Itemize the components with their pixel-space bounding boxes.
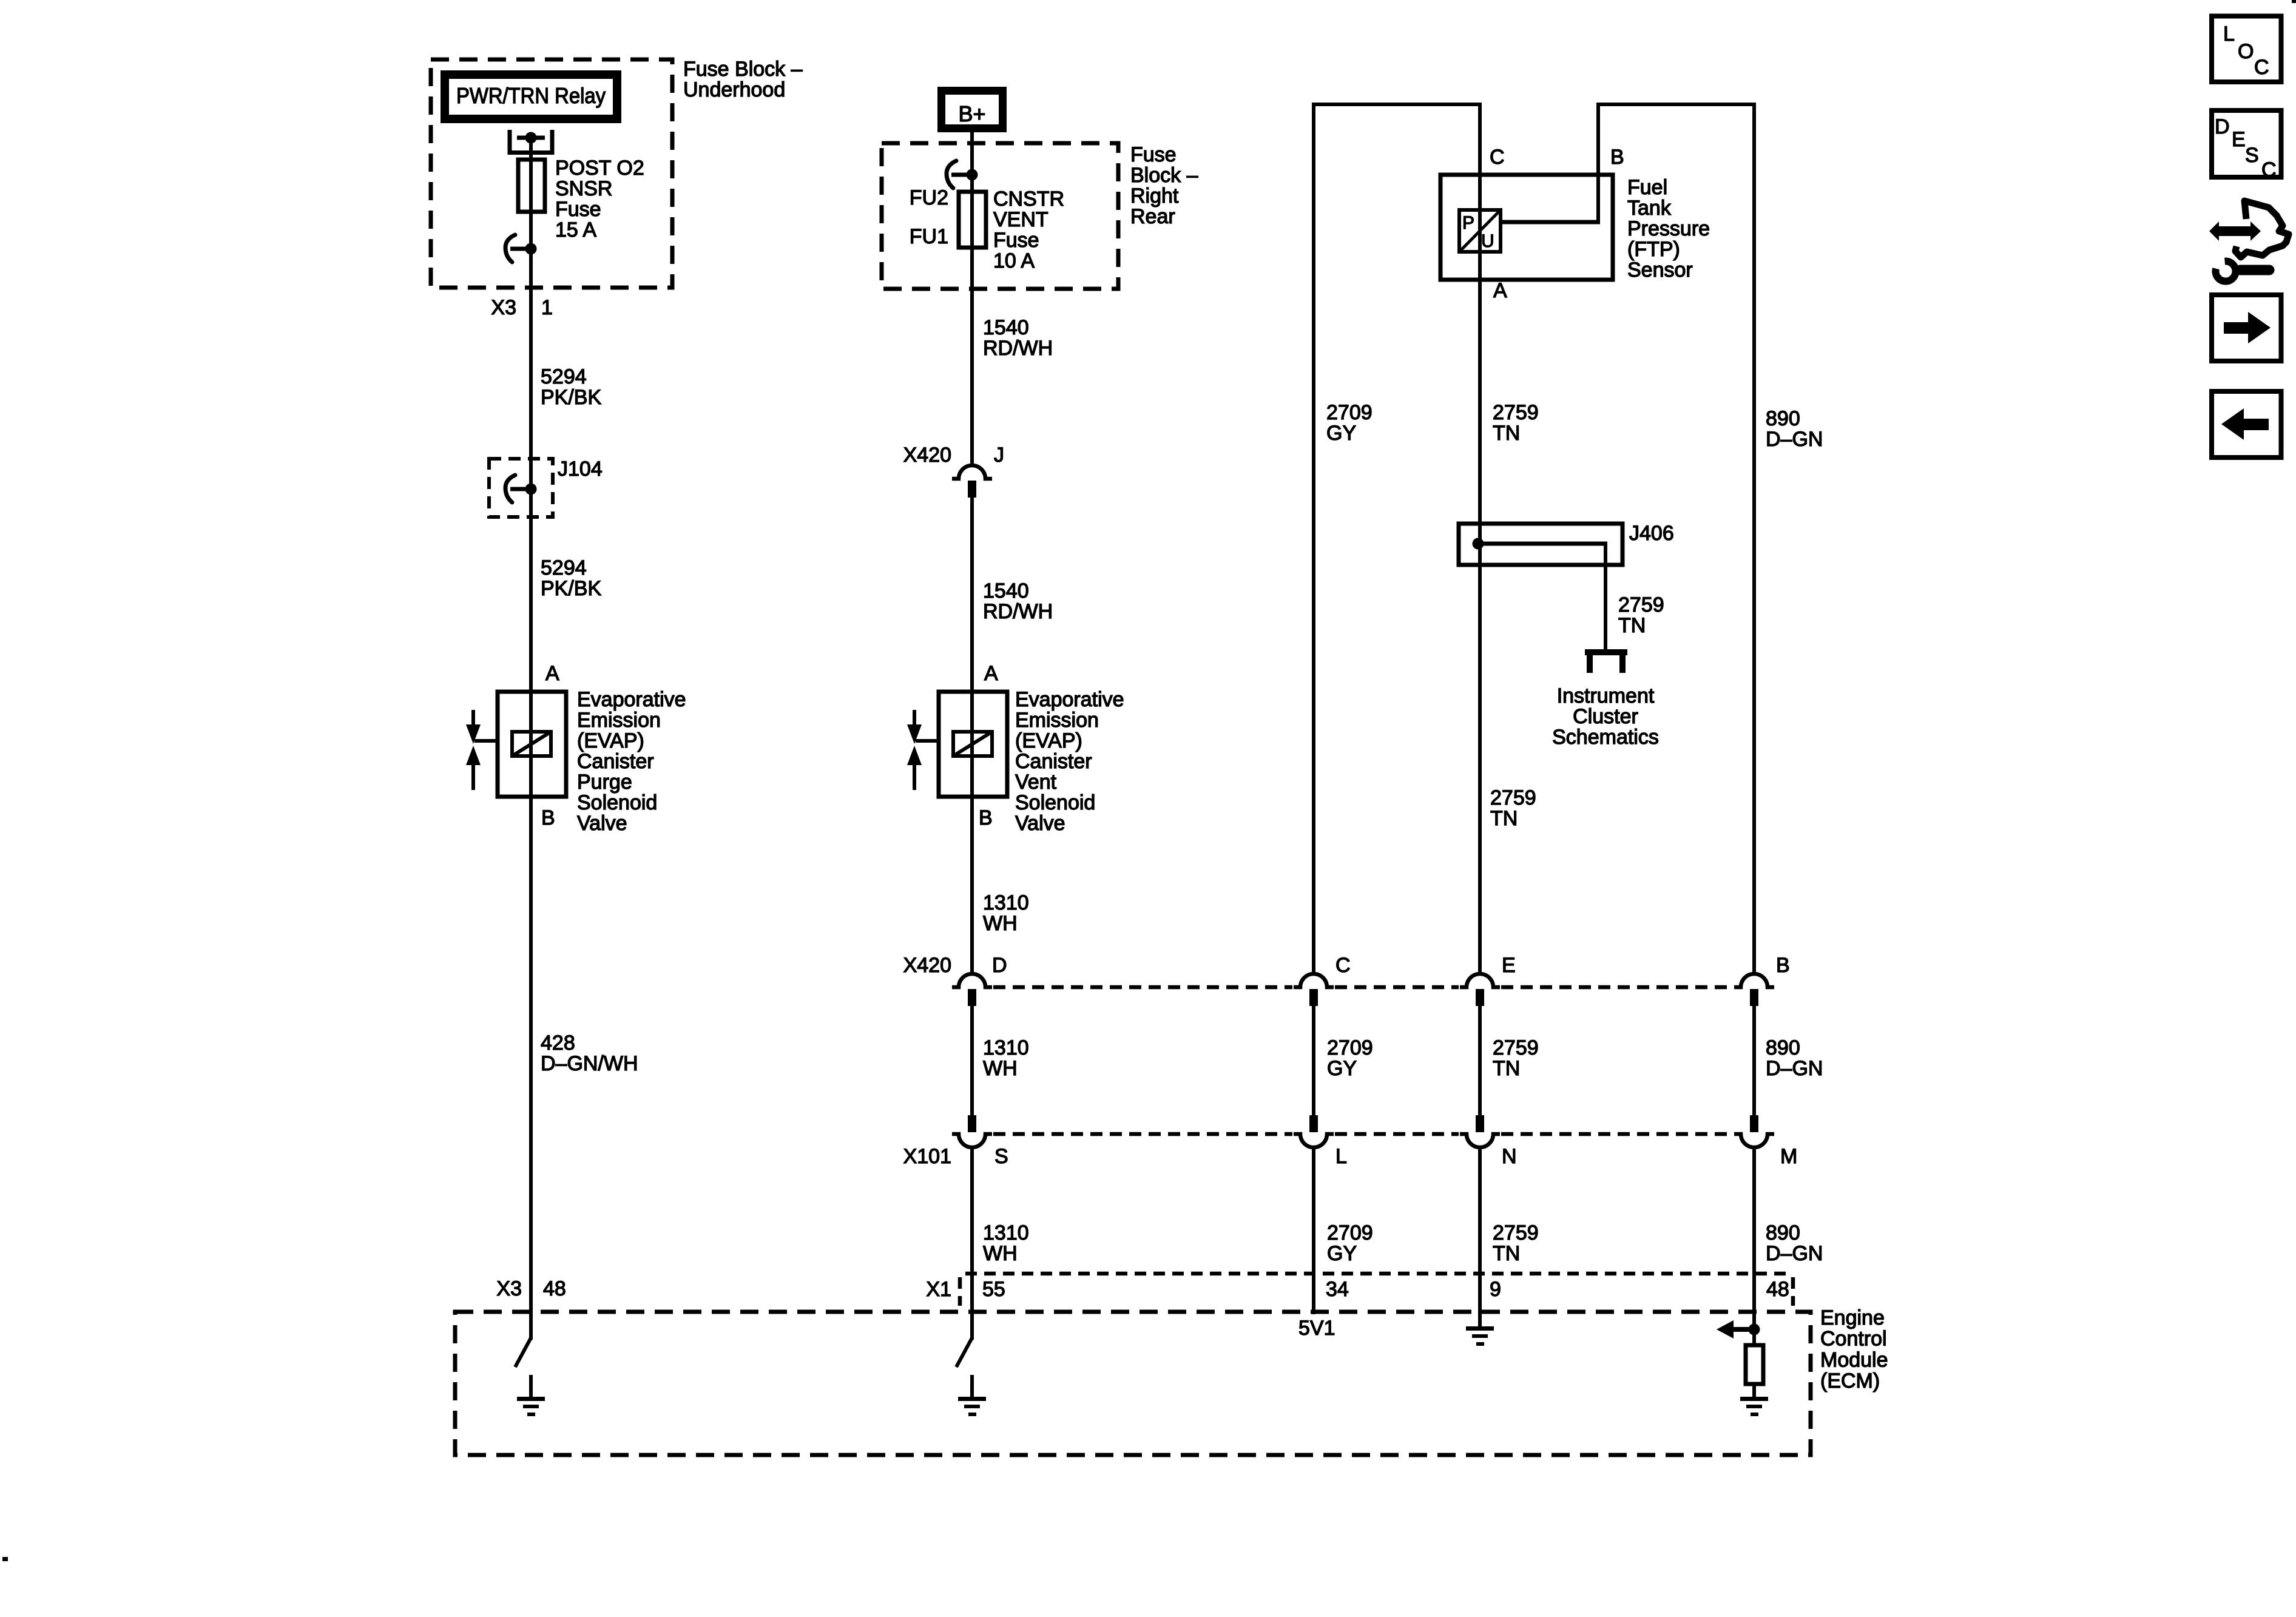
svg-text:GY: GY — [1327, 1242, 1357, 1265]
svg-text:PK/BK: PK/BK — [541, 577, 601, 600]
svg-text:TN: TN — [1618, 614, 1646, 637]
wire bracket 2709 GY to FTP C — [1312, 103, 1482, 106]
svg-text:Schematics: Schematics — [1552, 726, 1659, 749]
svg-text:POST O2: POST O2 — [555, 157, 644, 180]
svg-text:O: O — [2238, 40, 2254, 63]
svg-text:Sensor: Sensor — [1627, 258, 1693, 282]
svg-text:(EVAP): (EVAP) — [1015, 729, 1082, 752]
svg-text:E: E — [1502, 954, 1516, 977]
wire col4 2759 TN / FTP C — [1478, 103, 1482, 975]
ECM module box — [455, 1312, 1811, 1455]
svg-text:Solenoid: Solenoid — [1015, 791, 1095, 814]
svg-text:Right: Right — [1130, 184, 1179, 208]
wire col2 to vent solenoid — [970, 495, 974, 975]
fuse F2 CNSTR VENT 10A — [959, 192, 986, 248]
svg-text:2709: 2709 — [1327, 1221, 1373, 1244]
ground G4 (pin 48 resistor) — [1740, 1397, 1768, 1401]
svg-text:2759: 2759 — [1618, 593, 1664, 616]
svg-text:A: A — [545, 662, 559, 685]
svg-text:D: D — [2215, 115, 2230, 138]
svg-text:SNSR: SNSR — [555, 177, 612, 200]
icon back arrow box — [2212, 391, 2281, 457]
wire col3 2709 GY — [1312, 103, 1315, 975]
svg-text:WH: WH — [983, 912, 1018, 935]
fuse block underhood box — [431, 59, 672, 288]
solenoid L1 EVAP canister purge valve — [498, 692, 566, 797]
svg-text:1310: 1310 — [983, 1221, 1029, 1244]
wire bracket FTP B to 890 D-GN — [1596, 103, 1756, 106]
svg-text:B: B — [541, 806, 555, 829]
svg-text:48: 48 — [543, 1277, 566, 1300]
svg-text:A: A — [1493, 279, 1507, 302]
svg-text:C: C — [1335, 954, 1351, 977]
svg-text:428: 428 — [541, 1031, 575, 1055]
svg-text:GY: GY — [1327, 1057, 1357, 1080]
svg-text:J104: J104 — [558, 457, 603, 481]
connector X420 pin C — [1294, 974, 1334, 987]
wire col1 5294 PK/BK — [529, 138, 533, 1340]
svg-text:890: 890 — [1766, 407, 1800, 430]
svg-text:Fuse: Fuse — [1130, 143, 1177, 166]
svg-text:L: L — [2223, 22, 2235, 46]
ECM X1 connector dashed notch — [965, 1272, 1792, 1276]
svg-text:2759: 2759 — [1493, 401, 1539, 424]
svg-text:Cluster: Cluster — [1573, 705, 1638, 728]
svg-text:J: J — [994, 444, 1004, 467]
svg-text:TN: TN — [1493, 1057, 1520, 1080]
svg-text:U: U — [1481, 231, 1494, 251]
connector X420 pin E — [1460, 974, 1500, 987]
svg-text:34: 34 — [1326, 1278, 1349, 1301]
battery feed B+ — [942, 91, 1003, 129]
wires between X420 and X101 — [970, 1006, 974, 1116]
svg-text:(FTP): (FTP) — [1627, 238, 1680, 261]
svg-text:Emission: Emission — [1015, 709, 1099, 732]
svg-text:2759: 2759 — [1493, 1221, 1539, 1244]
splice J104 — [489, 459, 553, 517]
ground G2 (X1-55) — [970, 1375, 974, 1398]
svg-text:C: C — [2254, 56, 2269, 79]
svg-text:TN: TN — [1493, 422, 1520, 445]
valve symbol arrows col1 — [471, 710, 475, 726]
svg-text:FU2: FU2 — [910, 186, 948, 209]
svg-text:D–GN/WH: D–GN/WH — [541, 1052, 638, 1075]
svg-text:X420: X420 — [903, 444, 951, 467]
wire col2 B+ feed — [970, 132, 974, 465]
ground G1 (X3-48) — [529, 1375, 533, 1398]
svg-text:55: 55 — [982, 1278, 1005, 1301]
svg-text:C: C — [2261, 158, 2277, 181]
wire FTP pin B — [1596, 103, 1600, 222]
svg-text:Fuse: Fuse — [993, 229, 1039, 252]
icon LOC box — [2212, 16, 2281, 83]
svg-text:1540: 1540 — [983, 316, 1029, 339]
icon forward arrow box — [2212, 295, 2281, 361]
svg-text:2709: 2709 — [1327, 1036, 1373, 1059]
svg-text:WH: WH — [983, 1057, 1018, 1080]
svg-text:Rear: Rear — [1130, 205, 1175, 228]
connector X101 pin S — [968, 1115, 976, 1132]
svg-text:S: S — [2245, 144, 2259, 167]
svg-text:X101: X101 — [903, 1145, 951, 1168]
svg-text:1310: 1310 — [983, 891, 1029, 914]
svg-text:L: L — [1335, 1145, 1347, 1168]
svg-text:(ECM): (ECM) — [1820, 1369, 1880, 1393]
ECM pin 48 internal pull-up node — [1749, 1324, 1760, 1335]
svg-text:Fuse Block –: Fuse Block – — [683, 58, 803, 81]
svg-text:1310: 1310 — [983, 1036, 1029, 1059]
fuse block clip junction — [505, 235, 515, 262]
svg-text:1: 1 — [541, 296, 553, 319]
svg-text:1540: 1540 — [983, 579, 1029, 603]
svg-text:Evaporative: Evaporative — [577, 688, 686, 711]
svg-text:B: B — [1776, 954, 1790, 977]
svg-text:890: 890 — [1766, 1036, 1800, 1059]
svg-text:5294: 5294 — [541, 365, 587, 388]
svg-text:Tank: Tank — [1627, 197, 1672, 220]
svg-text:Module: Module — [1820, 1348, 1888, 1371]
svg-text:PK/BK: PK/BK — [541, 386, 601, 409]
svg-text:D–GN: D–GN — [1766, 1057, 1823, 1080]
wires below X101 — [970, 1147, 974, 1340]
connector X420 pin D — [952, 974, 992, 987]
svg-text:5294: 5294 — [541, 556, 587, 579]
svg-text:Underhood: Underhood — [683, 78, 785, 101]
connector X101 pin L — [1309, 1115, 1318, 1132]
svg-text:D–GN: D–GN — [1766, 428, 1823, 451]
svg-text:Emission: Emission — [577, 709, 661, 732]
svg-text:2709: 2709 — [1326, 401, 1373, 424]
connector X101 pin N — [1476, 1115, 1484, 1132]
icon hand with wrench — [2209, 201, 2289, 282]
svg-text:WH: WH — [983, 1242, 1018, 1265]
svg-text:FU1: FU1 — [910, 225, 948, 248]
connector row X101 dashed line — [993, 1132, 1292, 1136]
svg-text:X1: X1 — [926, 1278, 951, 1301]
ground G3 (pin 9) — [1466, 1326, 1494, 1331]
svg-text:Canister: Canister — [1015, 750, 1092, 773]
svg-text:Valve: Valve — [577, 812, 627, 835]
relay contact terminal bracket — [510, 130, 552, 153]
svg-text:B: B — [979, 806, 993, 829]
svg-text:48: 48 — [1766, 1278, 1789, 1301]
svg-text:VENT: VENT — [993, 208, 1048, 231]
svg-text:5V1: 5V1 — [1298, 1317, 1335, 1340]
svg-text:2759: 2759 — [1490, 786, 1536, 809]
svg-text:Solenoid: Solenoid — [577, 791, 657, 814]
fuse block clip junction FU2 — [947, 161, 956, 188]
svg-text:E: E — [2232, 128, 2246, 151]
svg-text:RD/WH: RD/WH — [983, 600, 1053, 623]
off-page connector fork to instrument cluster — [1585, 649, 1627, 655]
svg-text:10 A: 10 A — [993, 249, 1035, 272]
icon DESC box — [2212, 110, 2281, 177]
svg-text:B+: B+ — [958, 101, 985, 126]
connector X420 pin B — [1734, 974, 1774, 987]
page artifact mark top right — [2292, 0, 2296, 3]
svg-text:J406: J406 — [1629, 522, 1674, 545]
wire col5 890 D-GN — [1752, 103, 1756, 975]
svg-text:RD/WH: RD/WH — [983, 337, 1053, 360]
svg-text:Evaporative: Evaporative — [1015, 688, 1124, 711]
valve symbol arrows col2 — [913, 710, 916, 726]
svg-text:B: B — [1610, 146, 1624, 169]
svg-text:D: D — [992, 954, 1007, 977]
svg-text:2759: 2759 — [1493, 1036, 1539, 1059]
svg-text:Engine: Engine — [1820, 1306, 1885, 1329]
svg-text:X420: X420 — [903, 954, 951, 977]
svg-text:P: P — [1462, 213, 1474, 233]
svg-text:TN: TN — [1493, 1242, 1520, 1265]
svg-text:A: A — [984, 662, 998, 685]
svg-text:Pressure: Pressure — [1627, 217, 1710, 240]
svg-text:S: S — [994, 1145, 1008, 1168]
wire col1 ECM pigtail — [515, 1338, 531, 1367]
svg-text:Valve: Valve — [1015, 812, 1065, 835]
svg-text:Fuel: Fuel — [1627, 176, 1667, 199]
svg-text:Vent: Vent — [1015, 771, 1057, 794]
svg-text:C: C — [1490, 146, 1505, 169]
svg-text:Fuse: Fuse — [555, 198, 601, 221]
fuel tank pressure sensor U1 — [1440, 175, 1613, 280]
svg-text:D–GN: D–GN — [1766, 1242, 1823, 1265]
fuse F1 POST O2 SNSR 15A — [518, 160, 545, 212]
svg-text:X3: X3 — [496, 1277, 522, 1300]
page artifact dot — [2, 1557, 8, 1561]
svg-text:Control: Control — [1820, 1328, 1887, 1351]
svg-text:9: 9 — [1490, 1278, 1501, 1301]
svg-text:N: N — [1502, 1145, 1517, 1168]
svg-text:CNSTR: CNSTR — [993, 187, 1064, 211]
resistor R1 internal — [1746, 1345, 1763, 1384]
solenoid L2 EVAP canister vent valve — [939, 692, 1007, 797]
relay K1 PWR/TRN Relay — [445, 75, 617, 119]
svg-text:Canister: Canister — [577, 750, 654, 773]
svg-text:890: 890 — [1766, 1221, 1800, 1244]
svg-text:Purge: Purge — [577, 771, 632, 794]
svg-text:Instrument: Instrument — [1557, 684, 1655, 707]
svg-text:PWR/TRN Relay: PWR/TRN Relay — [456, 83, 606, 108]
svg-text:Block –: Block – — [1130, 164, 1198, 187]
svg-text:TN: TN — [1490, 807, 1518, 830]
svg-text:X3: X3 — [491, 296, 516, 319]
wire col2 ECM pigtail — [956, 1338, 972, 1367]
svg-text:15 A: 15 A — [555, 218, 596, 241]
splice pack J406 — [1459, 524, 1622, 565]
fuse block right rear box — [882, 143, 1118, 289]
svg-text:GY: GY — [1326, 422, 1356, 445]
svg-text:(EVAP): (EVAP) — [577, 729, 644, 752]
connector X101 pin M — [1750, 1115, 1758, 1132]
connector row X420 dashed line — [993, 985, 1292, 990]
svg-text:M: M — [1780, 1145, 1797, 1168]
